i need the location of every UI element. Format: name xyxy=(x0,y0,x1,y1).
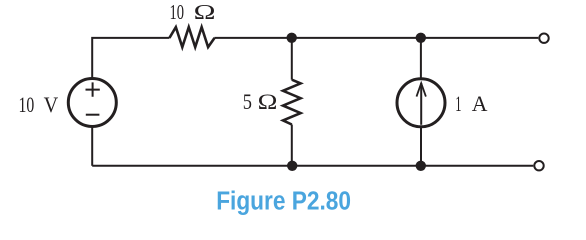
wire top-left (source top to resistor) xyxy=(92,38,169,79)
svg-text:Figure P2.80: Figure P2.80 xyxy=(216,186,351,216)
wire left bottom (source bottom to bottom rail) xyxy=(91,127,93,166)
wire 5 ohm top lead xyxy=(291,38,293,80)
wire 5 ohm bottom lead xyxy=(291,125,293,166)
voltage source U1 10V xyxy=(68,79,116,127)
svg-text:V: V xyxy=(44,92,59,117)
svg-text:10: 10 xyxy=(170,2,185,24)
svg-text:1: 1 xyxy=(455,91,461,116)
node B (top of current source) xyxy=(416,33,426,43)
svg-text:Ω: Ω xyxy=(194,2,216,24)
svg-text:A: A xyxy=(472,91,488,116)
wire current source top lead xyxy=(420,38,422,79)
node C (bottom of 5 ohm) xyxy=(287,161,297,171)
svg-text:Ω: Ω xyxy=(258,89,278,114)
plus sign xyxy=(86,82,100,96)
svg-text:5: 5 xyxy=(243,89,252,114)
resistor R1 10 ohm xyxy=(169,27,214,47)
terminal bottom right xyxy=(534,161,543,170)
node D (bottom of current source) xyxy=(416,161,426,171)
current source I1 1A xyxy=(397,79,445,127)
arrow xyxy=(420,83,422,125)
minus sign xyxy=(86,114,100,116)
wire current source bottom lead xyxy=(420,127,422,166)
resistor R2 5 ohm xyxy=(283,80,301,125)
svg-text:10: 10 xyxy=(19,92,35,117)
node A (top of 5 ohm) xyxy=(287,33,297,43)
wire top (resistor to top terminal) xyxy=(214,37,538,39)
terminal top right xyxy=(539,34,548,43)
wire bottom rail xyxy=(92,165,533,167)
